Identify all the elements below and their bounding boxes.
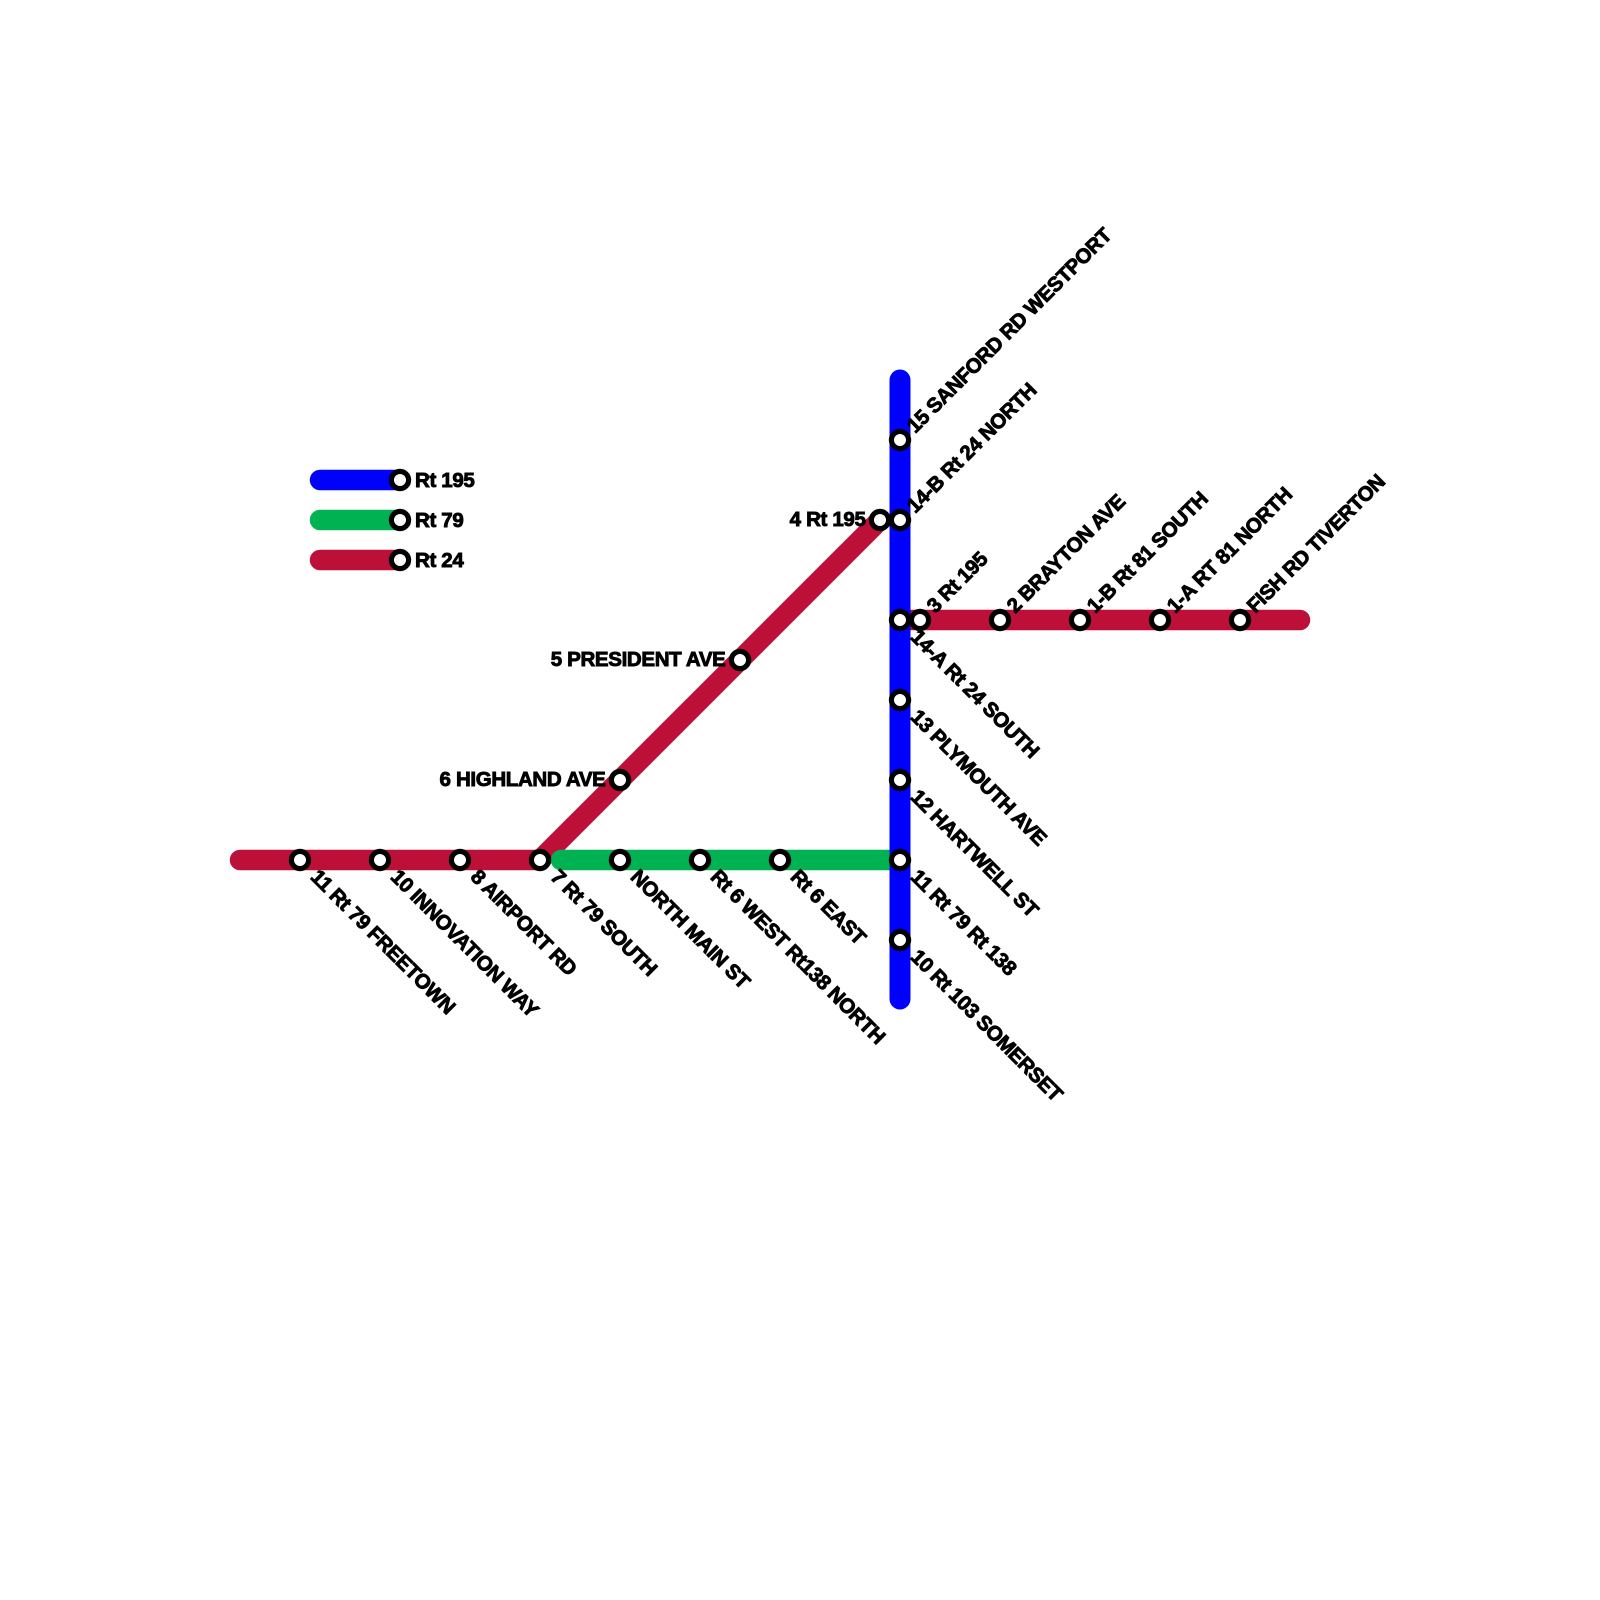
station 5 PRESIDENT AVE [731, 651, 748, 668]
station FISH RD TIVERTON [1231, 611, 1248, 628]
line Rt 195 blue vertical [890, 380, 911, 999]
station 1-B Rt 81 SOUTH [1071, 611, 1088, 628]
station 4 Rt 195 [871, 511, 888, 528]
station NORTH MAIN ST [611, 851, 628, 868]
station 11 Rt 79 FREETOWN [291, 851, 308, 868]
station 11 Rt 79 Rt 138 [891, 851, 908, 868]
svg-text:Rt 24: Rt 24 [415, 549, 464, 572]
svg-text:4 Rt 195: 4 Rt 195 [790, 508, 866, 531]
station 14-B Rt 24 NORTH [891, 511, 908, 528]
legend Rt 195 bar [320, 470, 400, 491]
station 7 Rt 79 SOUTH [531, 851, 548, 868]
legend ring Rt 195 [391, 471, 408, 488]
station 13 PLYMOUTH AVE [891, 691, 908, 708]
station 10 Rt 103 SOMERSET [891, 931, 908, 948]
line Rt 79 green segment [561, 850, 900, 871]
station 12 HARTWELL ST [891, 771, 908, 788]
legend Rt 24 bar [320, 550, 400, 571]
station Rt 6 EAST [771, 851, 788, 868]
station 2 BRAYTON AVE [991, 611, 1008, 628]
svg-text:5 PRESIDENT AVE: 5 PRESIDENT AVE [551, 648, 726, 671]
line Rt 24 west+diagonal polyline [240, 520, 880, 860]
svg-text:Rt 79: Rt 79 [415, 509, 463, 532]
legend Rt 79 bar [320, 510, 400, 531]
svg-text:Rt 195: Rt 195 [415, 469, 474, 492]
station 10 INNOVATION WAY [371, 851, 388, 868]
station 8 AIRPORT RD [451, 851, 468, 868]
station 1-A RT 81 NORTH [1151, 611, 1168, 628]
station Rt 6 WEST Rt138 NORTH [691, 851, 708, 868]
svg-text:6 HIGHLAND AVE: 6 HIGHLAND AVE [440, 768, 606, 791]
station 15 SANFORD RD WESTPORT [891, 431, 908, 448]
station 3 Rt 195 [911, 611, 928, 628]
station 14-A Rt 24 SOUTH [891, 611, 908, 628]
line Rt 24 east segment [900, 610, 1300, 631]
legend ring Rt 24 [391, 551, 408, 568]
legend ring Rt 79 [391, 511, 408, 528]
station 6 HIGHLAND AVE [611, 771, 628, 788]
